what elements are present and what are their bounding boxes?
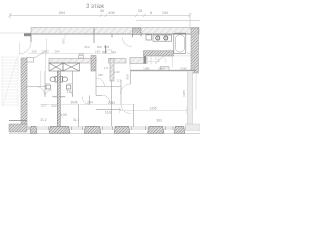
interior walls dropping to bottom wall <box>79 105 134 128</box>
lower right wall light <box>187 70 193 124</box>
dim extension tick x65 <box>64 34 66 38</box>
svg-text:1,1: 1,1 <box>155 57 160 61</box>
svg-text:1,03: 1,03 <box>67 90 73 94</box>
sink rect <box>146 35 152 40</box>
entry jamb <box>30 34 32 42</box>
svg-text:8: 8 <box>150 11 152 15</box>
long bottom dim line <box>40 104 135 106</box>
pier right of shafts <box>91 56 96 72</box>
svg-text:290: 290 <box>98 73 103 77</box>
svg-text:284: 284 <box>54 50 59 54</box>
door arc room B <box>123 38 132 47</box>
svg-text:16,8: 16,8 <box>105 111 111 115</box>
niche line x40.8 <box>40 71 42 87</box>
labels left column <box>98 66 121 83</box>
stove <box>153 35 172 41</box>
svg-text:1,95: 1,95 <box>60 113 66 117</box>
living room dimension line <box>120 109 187 111</box>
svg-text:294: 294 <box>87 101 93 105</box>
svg-text:694: 694 <box>59 11 65 15</box>
toilet left <box>50 77 57 83</box>
lower left room line <box>9 120 27 122</box>
door arc room 31,2 <box>36 87 45 96</box>
corridor door leaf <box>34 51 47 59</box>
small rooms center-bottom <box>90 71 122 126</box>
svg-text:194: 194 <box>162 11 168 15</box>
svg-text:583: 583 <box>62 38 66 43</box>
svg-text:1905: 1905 <box>182 90 186 97</box>
wall stub x105.5 <box>105 45 107 54</box>
sink left <box>46 85 51 89</box>
bathroom door arc <box>187 53 194 60</box>
WC front wall stubs <box>52 96 57 98</box>
living room left wall <box>130 70 132 84</box>
door arc living room <box>121 84 131 94</box>
living room right edge line <box>195 70 197 110</box>
door arc room 31,1 <box>82 96 90 104</box>
top dimension line <box>9 13 201 29</box>
burner 1 <box>156 36 160 40</box>
svg-text:1,03: 1,03 <box>114 70 120 74</box>
room corner line <box>45 54 47 72</box>
faint wall joint x60 <box>59 28 61 35</box>
dim tick left end <box>119 107 121 113</box>
top exterior wall (hatched band) <box>31 28 199 35</box>
labels above living room <box>126 57 188 97</box>
living room wall inner line <box>131 71 188 73</box>
corridor fixture rect <box>79 56 84 59</box>
sink right <box>66 85 71 89</box>
svg-text:500к: 500к <box>158 67 165 71</box>
svg-text:55: 55 <box>100 9 104 13</box>
middle dimension line + labels <box>28 53 115 55</box>
room labels bottom-left <box>40 90 115 122</box>
left interior wall (hatched) <box>21 58 27 124</box>
shaft box 1 with X <box>49 63 63 71</box>
staircase treads (faint) <box>2 55 18 107</box>
kitchen partition wall (hatched) <box>144 51 174 56</box>
svg-text:600: 600 <box>97 45 102 49</box>
shaft box 2 with X <box>63 63 80 71</box>
middle vertical wall x110-114 <box>110 59 114 82</box>
band piece x108.5-126 <box>109 59 127 64</box>
burner 2 <box>164 36 168 40</box>
entry door arc <box>19 42 31 54</box>
svg-text:523: 523 <box>84 45 89 49</box>
svg-text:28: 28 <box>138 9 142 13</box>
window jamb ticks <box>29 126 173 130</box>
svg-text:1,6: 1,6 <box>104 66 109 70</box>
svg-text:900: 900 <box>126 74 130 79</box>
kitchen left wall dark <box>144 53 147 64</box>
bottom piers (hatched trapezoids) <box>30 126 185 133</box>
right exterior wall hatched <box>191 28 199 73</box>
svg-text:1985: 1985 <box>143 67 150 71</box>
pier left of entry <box>24 33 31 36</box>
bathtub <box>174 33 186 53</box>
svg-text:256: 256 <box>31 50 36 54</box>
dim extension line x46.5 <box>46 38 48 54</box>
WC outer walls <box>27 71 73 97</box>
band piece x130-147 <box>130 58 147 64</box>
left wall foot <box>9 124 27 132</box>
svg-text:608: 608 <box>104 45 109 49</box>
middle wall band (hatched) x49-99.5 <box>49 59 96 64</box>
bottom wall: window sill lines <box>9 127 200 134</box>
door arc center <box>96 78 105 87</box>
svg-text:31,2: 31,2 <box>40 118 46 122</box>
WC door arcs <box>45 90 52 97</box>
svg-text:3045: 3045 <box>70 101 77 105</box>
svg-text:529: 529 <box>111 50 116 54</box>
wall bottom edge <box>31 33 199 35</box>
central WC wall (hatched, vertical) <box>57 71 60 127</box>
partition jamb x172 <box>171 56 173 67</box>
svg-text:408: 408 <box>109 11 115 15</box>
wall crossing marks on top band <box>94 28 141 44</box>
dark pier on top band <box>133 28 142 35</box>
living room top wall <box>131 69 197 71</box>
svg-text:1435: 1435 <box>149 106 156 110</box>
faint projection line top-left <box>0 32 31 34</box>
svg-text:608: 608 <box>102 50 107 54</box>
wall stub line y50 <box>106 49 113 51</box>
svg-text:150: 150 <box>95 50 100 54</box>
wc shelf lines <box>45 83 51 85</box>
top dimension labels <box>59 9 168 15</box>
toilet right <box>60 77 67 83</box>
kitchen door leaf <box>155 56 164 63</box>
wall notch at left wall <box>27 57 34 62</box>
svg-text:2190: 2190 <box>180 67 187 71</box>
svg-text:383: 383 <box>156 119 162 123</box>
